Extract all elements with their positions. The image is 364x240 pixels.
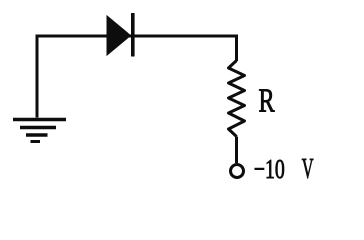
wire top horizontal — [36, 35, 237, 38]
resistor R — [229, 61, 245, 137]
svg-text:−10: −10 — [254, 153, 285, 184]
svg-text:R: R — [259, 83, 275, 120]
label -10 V — [254, 153, 314, 185]
wire right vertical lower — [235, 137, 238, 164]
diode — [107, 13, 135, 57]
ground — [13, 120, 66, 142]
wire left vertical — [36, 35, 39, 118]
terminal -10 V — [231, 165, 244, 178]
svg-text:V: V — [302, 154, 314, 185]
wire right vertical upper — [235, 35, 238, 62]
